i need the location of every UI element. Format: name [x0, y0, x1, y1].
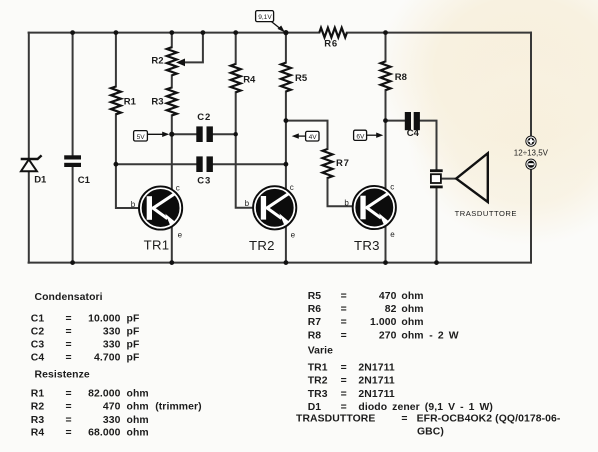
node bottom rail at C1	[70, 260, 75, 265]
node top rail at wiper return	[201, 30, 206, 35]
svg-text:C2: C2	[197, 112, 211, 123]
svg-text:4.700: 4.700	[94, 353, 121, 364]
svg-text:68.000: 68.000	[88, 428, 121, 439]
svg-text:e: e	[178, 231, 183, 240]
svg-text:9,1V: 9,1V	[258, 14, 272, 21]
svg-text:R1: R1	[124, 96, 137, 107]
node top rail at R4	[233, 30, 238, 35]
resistor R4	[231, 64, 241, 92]
svg-text:R2: R2	[151, 56, 163, 67]
svg-text:=: =	[66, 326, 72, 337]
wire transducer to bottom rail	[436, 188, 438, 262]
svg-text:R4: R4	[243, 75, 256, 86]
svg-text:TR2: TR2	[249, 238, 275, 253]
node bottom rail at TR2 emitter	[284, 260, 289, 265]
svg-text:(trimmer): (trimmer)	[155, 402, 202, 413]
svg-text:=: =	[66, 402, 72, 413]
battery terminal -	[525, 159, 536, 170]
wire top rail left of R6	[29, 32, 320, 34]
node bottom rail at TR1 emitter	[169, 260, 174, 265]
wire TR1 collector riser	[171, 134, 173, 190]
resistor R7	[323, 149, 333, 178]
svg-text:10.000: 10.000	[88, 313, 121, 324]
svg-text:C4: C4	[31, 353, 45, 364]
svg-text:TR3: TR3	[308, 389, 328, 400]
svg-text:R8: R8	[395, 72, 407, 83]
wire C3 left lead	[116, 163, 196, 165]
svg-text:R5: R5	[308, 291, 322, 302]
wire right border lower	[530, 170, 532, 263]
wire C4 left lead	[386, 120, 405, 122]
svg-text:Varie: Varie	[308, 346, 333, 357]
svg-text:12÷13,5V: 12÷13,5V	[514, 148, 549, 157]
svg-text:ohm: ohm	[401, 304, 423, 315]
wire C3 right lead	[213, 163, 286, 165]
wire R4 column top	[235, 33, 237, 64]
wire R2 column top	[171, 33, 173, 48]
svg-text:R3: R3	[151, 97, 163, 108]
svg-text:- 2 W: - 2 W	[429, 330, 458, 341]
node top rail at R8	[383, 30, 388, 35]
transistor TR1	[139, 186, 183, 230]
capacitor C4	[405, 112, 420, 130]
svg-text:330: 330	[103, 326, 121, 337]
svg-text:R3: R3	[31, 415, 45, 426]
svg-text:=: =	[341, 389, 347, 400]
wire TR1 emitter	[171, 226, 173, 263]
svg-text:D1: D1	[308, 402, 322, 413]
svg-text:C2: C2	[31, 326, 45, 337]
svg-text:=: =	[341, 402, 347, 413]
svg-text:R7: R7	[308, 317, 322, 328]
resistor R2 wiper arrow	[177, 59, 184, 65]
node bottom rail at transducer	[434, 260, 439, 265]
wire R5 bottom / TR2 collector	[285, 92, 287, 191]
node 4V callout	[292, 131, 319, 141]
svg-text:TR1: TR1	[308, 362, 328, 373]
node C2/R3 junction	[169, 132, 174, 137]
svg-text:ohm: ohm	[401, 291, 423, 302]
wire R1 bottom to TR1 base	[116, 114, 139, 208]
svg-text:TR3: TR3	[354, 238, 380, 253]
svg-text:=: =	[66, 428, 72, 439]
wire R7 bottom to TR3 base	[328, 178, 353, 206]
svg-text:ohm: ohm	[127, 389, 149, 400]
svg-text:1.000: 1.000	[370, 317, 397, 328]
svg-text:=: =	[66, 340, 72, 351]
transducer cone	[456, 153, 488, 202]
wire C1 column upper	[72, 33, 74, 156]
svg-text:TR1: TR1	[144, 237, 170, 252]
node 5V callout	[134, 131, 170, 141]
node 6V callout	[354, 130, 384, 140]
svg-text:2N1711: 2N1711	[358, 389, 395, 400]
svg-text:D1: D1	[34, 175, 47, 186]
node bottom rail at TR3 emitter	[383, 260, 388, 265]
diode D1 (zener)	[21, 155, 42, 171]
svg-text:c: c	[176, 183, 180, 192]
resistor R5	[281, 63, 291, 92]
svg-text:C4: C4	[407, 128, 420, 139]
wire R8 column top	[385, 33, 387, 62]
transistor TR3	[353, 186, 397, 230]
wire transducer square to cone	[441, 178, 456, 180]
svg-text:2N1711: 2N1711	[358, 362, 395, 373]
node 9,1V callout	[256, 11, 285, 33]
capacitor C2	[196, 126, 213, 142]
wire C4 right lead to transducer	[420, 121, 437, 170]
capacitor C3	[196, 156, 213, 172]
node C3/R5 junction	[284, 162, 289, 167]
svg-text:b: b	[131, 200, 136, 209]
svg-text:e: e	[291, 231, 296, 240]
wire left border lower (from D1)	[28, 171, 30, 262]
svg-text:=: =	[66, 353, 72, 364]
node R5/R7 junction	[284, 118, 289, 123]
svg-text:R6: R6	[324, 39, 338, 50]
svg-text:R8: R8	[308, 330, 322, 341]
wire C1 column lower	[72, 167, 74, 263]
resistor R2 (trimmer)	[167, 47, 177, 75]
svg-text:82.000: 82.000	[88, 389, 121, 400]
svg-text:=: =	[401, 414, 407, 425]
wire node to R7	[286, 121, 328, 149]
svg-text:330: 330	[103, 415, 121, 426]
wire R5 column top	[285, 33, 287, 63]
node top rail at R1	[114, 30, 119, 35]
svg-text:b: b	[344, 199, 349, 208]
node C2/R4 junction	[234, 132, 238, 136]
svg-text:ohm: ohm	[127, 402, 149, 413]
wire R3 bottom to C2 node	[171, 115, 173, 134]
svg-text:pF: pF	[127, 340, 140, 351]
resistor R6	[319, 28, 347, 38]
wire C2 left lead	[172, 133, 197, 135]
svg-text:b: b	[245, 199, 250, 208]
svg-text:=: =	[341, 317, 347, 328]
svg-text:R5: R5	[295, 73, 308, 84]
svg-text:=: =	[341, 376, 347, 387]
svg-text:C3: C3	[197, 176, 211, 187]
svg-text:=: =	[66, 313, 72, 324]
svg-text:=: =	[341, 330, 347, 341]
svg-text:EFR-OCB4OK2 (QQ/0178-06-: EFR-OCB4OK2 (QQ/0178-06-	[417, 414, 561, 425]
svg-text:ohm: ohm	[127, 428, 149, 439]
svg-text:c: c	[390, 182, 394, 191]
svg-text:TR2: TR2	[308, 376, 328, 387]
svg-text:c: c	[290, 183, 294, 192]
capacitor C1	[64, 155, 81, 167]
svg-text:diodo zener (9,1 V - 1 W): diodo zener (9,1 V - 1 W)	[358, 402, 493, 413]
wire left border upper (to D1)	[28, 33, 30, 159]
svg-text:R4: R4	[31, 428, 45, 439]
transducer piezo element	[430, 169, 443, 188]
svg-text:4V: 4V	[309, 134, 318, 141]
svg-text:=: =	[341, 304, 347, 315]
transistor TR2	[253, 186, 297, 230]
svg-text:=: =	[66, 389, 72, 400]
svg-text:330: 330	[103, 340, 121, 351]
svg-text:C1: C1	[78, 175, 91, 186]
node C3/R1 junction	[114, 162, 119, 167]
svg-text:2N1711: 2N1711	[358, 376, 395, 387]
resistor R1	[111, 87, 121, 115]
svg-text:TRASDUTTORE: TRASDUTTORE	[296, 414, 375, 425]
svg-text:5V: 5V	[137, 134, 146, 141]
wire bottom rail	[29, 262, 531, 264]
svg-text:pF: pF	[127, 313, 140, 324]
svg-text:470: 470	[379, 291, 397, 302]
svg-text:R6: R6	[308, 304, 322, 315]
svg-text:pF: pF	[127, 353, 140, 364]
svg-text:6V: 6V	[356, 133, 365, 140]
wire R8 bottom / TR3 collector	[385, 90, 387, 190]
battery terminal +	[525, 136, 536, 147]
wire top rail right of R6	[347, 32, 531, 34]
svg-text:Condensatori: Condensatori	[35, 292, 103, 303]
svg-text:=: =	[66, 415, 72, 426]
svg-text:pF: pF	[127, 326, 140, 337]
svg-text:TRASDUTTORE: TRASDUTTORE	[455, 209, 517, 218]
svg-text:=: =	[341, 291, 347, 302]
resistor R8	[381, 61, 391, 90]
svg-text:R2: R2	[31, 402, 45, 413]
svg-text:270: 270	[379, 330, 397, 341]
wire R1 column top	[115, 33, 117, 87]
wire R4 bottom to TR2 base	[236, 92, 254, 208]
node top rail at R5 (9,1V point)	[283, 30, 288, 35]
node top rail at C1	[70, 30, 75, 35]
node R8/C4 junction	[383, 118, 388, 123]
svg-text:e: e	[390, 230, 395, 239]
svg-text:Resistenze: Resistenze	[35, 370, 90, 381]
svg-text:C1: C1	[31, 313, 45, 324]
node top rail at R2	[169, 30, 174, 35]
svg-text:GBC): GBC)	[417, 427, 444, 438]
svg-text:470: 470	[103, 402, 121, 413]
wire C2 right lead	[213, 133, 236, 135]
svg-text:ohm: ohm	[127, 415, 149, 426]
wire R2 wiper return	[184, 33, 203, 63]
wire right border upper	[530, 33, 532, 136]
svg-text:R7: R7	[336, 158, 350, 169]
resistor R3	[167, 88, 177, 116]
wire R2 to R3	[171, 75, 173, 87]
svg-text:=: =	[341, 362, 347, 373]
svg-text:ohm: ohm	[401, 317, 423, 328]
svg-text:R1: R1	[31, 389, 45, 400]
svg-text:C3: C3	[31, 340, 45, 351]
wire TR3 emitter	[385, 226, 387, 263]
svg-text:ohm: ohm	[401, 330, 423, 341]
wire TR2 emitter	[285, 226, 287, 263]
svg-text:82: 82	[385, 304, 397, 315]
